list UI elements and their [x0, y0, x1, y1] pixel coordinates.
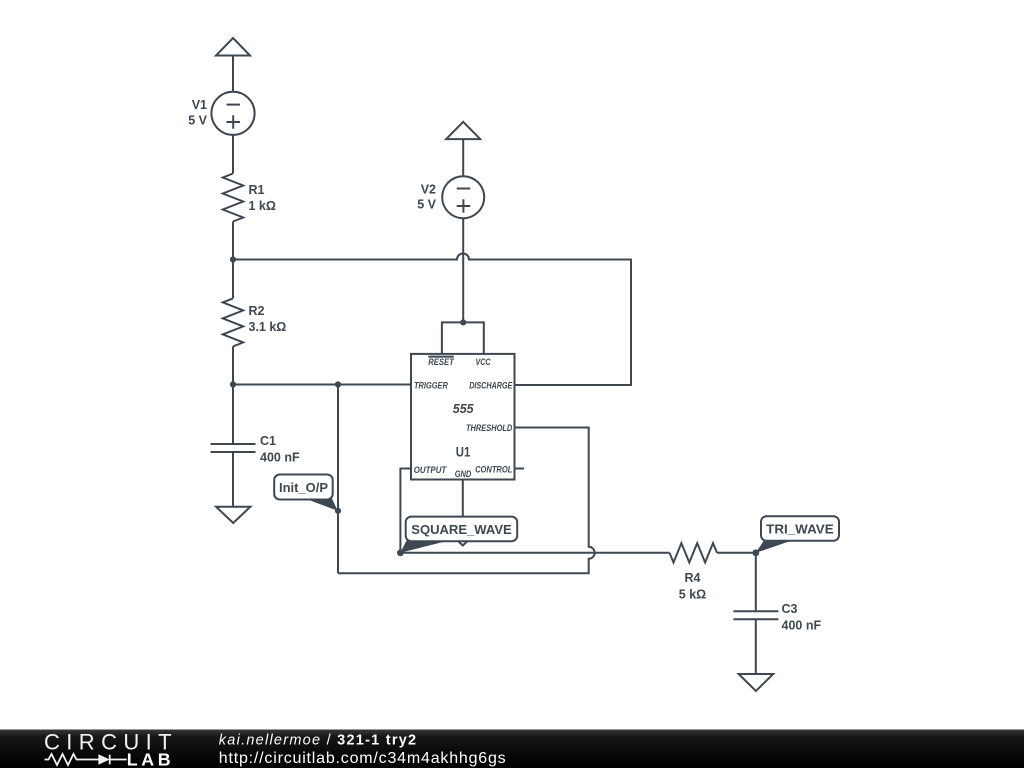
flag TRI_WAVE [756, 516, 839, 553]
wire node G to C3 [755, 553, 757, 612]
node F junction init flag anchor [335, 508, 341, 514]
svg-text:5 V: 5 V [188, 114, 207, 128]
voltage source V2 [442, 176, 484, 218]
wire power arrow to V1 [232, 56, 234, 93]
node A junction R1/R2 [230, 256, 236, 262]
svg-text:V1: V1 [192, 98, 207, 112]
svg-text:U1: U1 [456, 444, 471, 459]
capacitor C1 [211, 444, 256, 452]
gnd pin wire [462, 480, 464, 530]
svg-text:LAB: LAB [127, 750, 174, 768]
control pin stub [515, 468, 525, 470]
svg-text:TRIGGER: TRIGGER [414, 380, 448, 390]
label C1 400 nF [260, 434, 300, 465]
svg-text:http://circuitlab.com/c34m4akh: http://circuitlab.com/c34m4akhhg6gs [219, 750, 507, 767]
ground (U1 gnd) [446, 530, 480, 546]
reset-vcc tie wire [442, 322, 484, 354]
feedback vertical wire [337, 385, 339, 574]
node C junction trigger/feedback [335, 381, 341, 387]
CircuitLab logo resistor-diode glyph [45, 754, 127, 765]
node D junction V2/reset/vcc [460, 319, 466, 325]
svg-text:C3: C3 [782, 602, 798, 616]
label V2 5 V [417, 183, 436, 212]
label R4 5 kOhm [679, 571, 706, 602]
svg-text:R2: R2 [249, 304, 265, 318]
flag Init_O/P [274, 475, 337, 511]
node G junction R4/C3/tri wave [752, 549, 759, 556]
resistor R2 [223, 298, 243, 346]
svg-text:C1: C1 [260, 434, 276, 448]
svg-text:5 V: 5 V [417, 198, 436, 212]
voltage source V1 [211, 92, 254, 135]
svg-text:TRI_WAVE: TRI_WAVE [766, 521, 834, 536]
svg-text:Init_O/P: Init_O/P [279, 480, 328, 495]
wire R4 to node G [717, 552, 756, 554]
threshold wire with hop over output wire [338, 428, 595, 574]
svg-text:3.1 kΩ: 3.1 kΩ [249, 320, 287, 334]
node E junction output/square wave [397, 549, 404, 556]
wire C3 to ground [755, 619, 757, 674]
trigger wire node B to U1 [233, 384, 411, 386]
power flag arrow (V2 +5V) [446, 122, 480, 139]
wire power arrow to V2 [462, 139, 464, 176]
wire node B to C1 [232, 385, 234, 445]
label R2 3.1 kOhm [249, 304, 287, 334]
square wave wire to R4 [400, 552, 669, 554]
svg-text:400 nF: 400 nF [260, 451, 300, 465]
node B junction R2/C1/trigger [230, 381, 236, 387]
svg-text:VCC: VCC [475, 357, 490, 367]
flag SQUARE_WAVE [400, 517, 517, 553]
svg-text:1 kΩ: 1 kΩ [249, 199, 276, 213]
svg-text:555: 555 [453, 401, 475, 416]
svg-text:SQUARE_WAVE: SQUARE_WAVE [411, 522, 512, 537]
wire C1 to ground [232, 452, 234, 507]
svg-text:5 kΩ: 5 kΩ [679, 588, 706, 602]
resistor R1 [223, 174, 243, 222]
svg-text:GND: GND [455, 469, 472, 479]
CircuitLab logo diode triangle [98, 754, 109, 764]
svg-text:V2: V2 [421, 183, 436, 197]
ground (C3) [739, 674, 774, 691]
wire node A to discharge path with hop over V2 wire [233, 254, 631, 386]
svg-text:OUTPUT: OUTPUT [414, 465, 448, 475]
resistor R4 [670, 543, 718, 562]
wire V2 to node D [462, 218, 464, 322]
pin RESET [428, 357, 455, 367]
label C3 400 nF [782, 602, 822, 633]
svg-text:CONTROL: CONTROL [475, 464, 512, 474]
footer bar [0, 730, 1024, 768]
wire node A down to R2 [232, 260, 234, 299]
wire R2 to node B [232, 346, 234, 384]
svg-text:R1: R1 [249, 183, 265, 197]
svg-text:DISCHARGE: DISCHARGE [469, 380, 513, 390]
ground (C1) [216, 507, 250, 523]
svg-text:THRESHOLD: THRESHOLD [466, 423, 513, 433]
wire V1 to R1 [232, 135, 234, 174]
svg-text:RESET: RESET [428, 357, 455, 367]
op-amp U1 555 timer body [411, 354, 515, 480]
output wire [400, 469, 411, 553]
svg-text:kai.nellermoe / 321-1 try2: kai.nellermoe / 321-1 try2 [219, 733, 418, 749]
label R1 1 kOhm [249, 183, 276, 213]
svg-text:400 nF: 400 nF [782, 619, 822, 633]
wire R1 to node A [232, 222, 234, 260]
capacitor C3 [733, 611, 778, 619]
power flag arrow (V1 +5V) [216, 38, 250, 56]
svg-text:R4: R4 [685, 571, 701, 585]
label V1 5 V [188, 98, 207, 128]
